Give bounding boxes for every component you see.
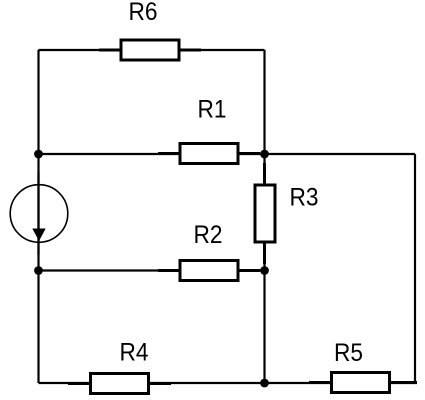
wire: right vertical rail x=415 (414, 154, 416, 383)
svg-text:R4: R4 (120, 339, 149, 367)
resistor R3 (vertical) (255, 163, 319, 264)
wire: left vertical rail x=38.5 (37, 50, 39, 383)
resistor R1 (158, 96, 260, 164)
wire: bottom horizontal y=383 (39, 382, 418, 384)
wire: R2 row y=270.5 (39, 269, 265, 271)
current source I1 (10, 172, 68, 255)
svg-text:R3: R3 (290, 184, 319, 212)
svg-text:R5: R5 (334, 339, 363, 367)
svg-text:R6: R6 (129, 0, 158, 26)
wire: middle vertical rail x=264.5 (263, 50, 265, 383)
node: left rail / R2 row (34, 266, 43, 275)
wire: top horizontal y=50 (39, 49, 265, 51)
svg-text:R2: R2 (194, 221, 223, 249)
svg-text:R1: R1 (198, 96, 227, 124)
resistor R2 (158, 221, 260, 281)
node: middle rail / bottom wire (260, 379, 269, 388)
resistor R4 (68, 339, 171, 394)
node: middle rail / R2 row (260, 266, 269, 275)
resistor R6 (99, 0, 201, 60)
resistor R5 (309, 339, 417, 393)
wire: R1 row y=154 (39, 153, 416, 155)
node: middle rail / R1 row (260, 150, 269, 159)
node: left rail / R1 row (34, 150, 43, 159)
